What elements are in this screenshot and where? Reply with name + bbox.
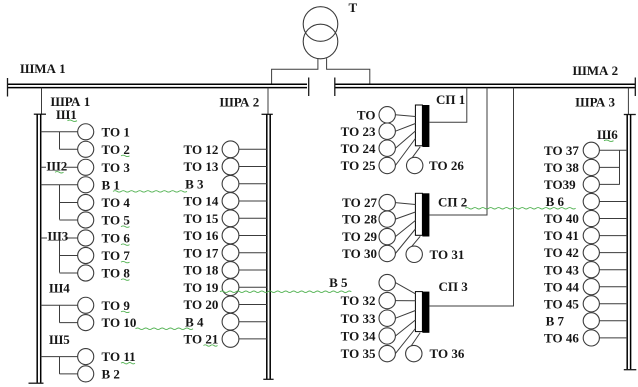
- wire TO 38 to branch Sh6: [599, 166, 619, 168]
- bus ShRA 3 bottom tick: [624, 369, 637, 371]
- svg-text:ТО 4: ТО 4: [102, 195, 131, 210]
- svg-text:ТО 38: ТО 38: [544, 160, 579, 175]
- feeder circle B 2: [78, 366, 94, 382]
- svg-text:Ш5: Ш5: [49, 332, 70, 347]
- bus ShMA 1 left end tick: [7, 78, 9, 97]
- wire bus ShRA1 to TO 6 (passes under Sh3 label): [41, 237, 78, 239]
- svg-text:ТО 36: ТО 36: [430, 346, 465, 361]
- net connector TO19 to B5 (green wavy): [220, 291, 351, 292]
- feeder circle TO (22): [379, 107, 395, 123]
- wire TO 35 to SP3 busbar: [395, 329, 415, 354]
- wire SP2 feed from bus ShMA2: [429, 88, 487, 215]
- feeder circle TO39: [583, 176, 599, 192]
- bus ShRA 1 top tick: [34, 113, 46, 115]
- wire branch to TO 10: [60, 322, 78, 324]
- spellcheck squiggle under Sh1: [68, 120, 78, 121]
- panel SP 1 busbar (black section): [422, 105, 429, 147]
- wire TO 17 to bus ShRA2: [239, 252, 267, 254]
- wire TO 20 to bus ShRA2: [239, 304, 267, 306]
- feeder circle TO 2: [78, 141, 94, 157]
- svg-text:ТО 13: ТО 13: [184, 159, 219, 174]
- bus ShRA 3 (double vertical): [627, 115, 630, 370]
- feeder circle TO 29: [379, 228, 395, 244]
- wire TO 29 to SP2 busbar: [395, 221, 415, 237]
- svg-text:ТО 34: ТО 34: [341, 329, 376, 344]
- svg-text:ТО 43: ТО 43: [544, 262, 579, 277]
- wire branch Sh3 vertical: [59, 238, 61, 273]
- wire branch Sh4 vertical: [59, 305, 61, 322]
- feeder circle TO 46: [583, 330, 599, 346]
- net connector TO10 to B4 (green wavy): [136, 328, 194, 329]
- svg-text:ТО 37: ТО 37: [544, 143, 579, 158]
- wire TO 15 to bus ShRA2: [239, 217, 267, 219]
- svg-text:Ш3: Ш3: [48, 228, 69, 243]
- feeder circle B 6: [583, 193, 599, 209]
- svg-text:В 4: В 4: [185, 314, 204, 329]
- panel SP 1 busbar (white section): [415, 105, 422, 146]
- wire SP3 feed from bus ShMA2: [429, 88, 513, 306]
- wire branch B1 vertical: [59, 185, 61, 220]
- feeder circle TO 27: [379, 194, 395, 210]
- wire TO 31 to SP2 busbar bottom: [412, 236, 421, 246]
- svg-text:В 6: В 6: [546, 194, 565, 209]
- wire TO 18 to bus ShRA2: [239, 269, 267, 271]
- wire TO 23 to SP1 busbar: [395, 124, 415, 132]
- wire TO 24 to SP1 busbar: [395, 131, 415, 148]
- feeder circle TO 4: [78, 194, 94, 210]
- svg-text:ТО 6: ТО 6: [102, 231, 131, 246]
- wire TO 21 to bus ShRA2: [239, 338, 267, 340]
- spellcheck squiggle under TO 5: [121, 226, 130, 227]
- wire TO 30 to SP2 busbar: [395, 229, 415, 254]
- svg-text:СП 1: СП 1: [436, 92, 465, 107]
- wire TO 25 to SP1 busbar: [395, 139, 415, 166]
- transformer T (two overlapping circles): [303, 7, 338, 59]
- feeder circle TO 13: [222, 158, 239, 175]
- svg-text:ТО 15: ТО 15: [184, 211, 219, 226]
- feeder circle TO 3: [78, 159, 94, 175]
- svg-text:ТО 25: ТО 25: [341, 158, 376, 173]
- feeder circle TO 18: [222, 262, 239, 279]
- feeder circle TO 35: [379, 345, 395, 361]
- feeder circle TO 11: [78, 349, 94, 365]
- bus ShRA 1 (double vertical): [37, 114, 41, 383]
- svg-text:ТО 24: ТО 24: [341, 141, 376, 156]
- feeder circle B 4: [222, 313, 239, 330]
- svg-text:ТО 11: ТО 11: [102, 349, 136, 364]
- spellcheck squiggle under TO 11: [121, 363, 135, 364]
- wire TO 33 to SP3 busbar: [395, 311, 415, 319]
- feeder circle TO 7: [78, 247, 94, 263]
- svg-text:ТО 26: ТО 26: [429, 158, 464, 173]
- svg-text:ТО 8: ТО 8: [102, 266, 131, 281]
- svg-text:ТО 40: ТО 40: [544, 211, 579, 226]
- feeder circle TO 45: [583, 296, 599, 312]
- feeder circle TO 32: [379, 292, 395, 308]
- svg-text:ТО 28: ТО 28: [342, 212, 377, 227]
- wire TO 40 to bus ShRA3: [599, 218, 627, 220]
- feeder circle B 3: [222, 175, 239, 192]
- spellcheck squiggle under Sh6: [604, 140, 614, 141]
- spellcheck squiggle under TO 2: [121, 155, 130, 156]
- svg-text:В 3: В 3: [185, 176, 204, 191]
- svg-text:ТО 29: ТО 29: [342, 229, 377, 244]
- spellcheck squiggle under Sh2: [55, 172, 64, 173]
- svg-text:ТО 44: ТО 44: [544, 279, 579, 294]
- spellcheck squiggle under TO 8: [121, 279, 130, 280]
- wire TO 19 to bus ShRA2: [239, 286, 267, 288]
- wire TO 45 to bus ShRA3: [599, 303, 627, 305]
- feeder circle B 7: [583, 313, 599, 329]
- panel SP 2 busbar (white section): [415, 193, 422, 235]
- feeder circle TO 26: [407, 157, 423, 173]
- svg-text:В 7: В 7: [546, 313, 565, 328]
- svg-text:ШРА 2: ШРА 2: [220, 95, 260, 110]
- wire TO 36 to SP3 busbar bottom: [411, 333, 420, 346]
- svg-text:ТО 2: ТО 2: [102, 142, 130, 157]
- bus ShMA 2 right end tick: [634, 78, 636, 97]
- feeder circle TO 40: [583, 210, 599, 226]
- svg-text:ТО 20: ТО 20: [184, 297, 219, 312]
- svg-text:ТО 21: ТО 21: [184, 332, 219, 347]
- wire branch to TO 2: [60, 148, 78, 150]
- wire TO 34 to SP3 busbar: [395, 320, 415, 336]
- svg-text:ТО 27: ТО 27: [342, 195, 377, 210]
- feeder circle TO 5: [78, 212, 94, 228]
- wire bus ShRA1 to B 1: [41, 184, 78, 186]
- bus ShRA 2 bottom tick: [263, 378, 273, 380]
- svg-text:ТО 35: ТО 35: [341, 346, 376, 361]
- feeder circle TO 28: [379, 211, 395, 227]
- bus ShRA 2 (double vertical): [267, 114, 270, 379]
- svg-text:В 2: В 2: [102, 367, 120, 382]
- spellcheck squiggle under TO 21: [204, 345, 218, 346]
- svg-text:В 1: В 1: [102, 177, 120, 192]
- svg-text:ТО 33: ТО 33: [341, 311, 376, 326]
- svg-text:ТО39: ТО39: [544, 177, 576, 192]
- svg-text:ТО 45: ТО 45: [544, 296, 579, 311]
- wire B 4 to bus ShRA2: [239, 321, 267, 323]
- svg-text:Ш1: Ш1: [56, 107, 77, 122]
- panel SP 2 busbar (black section): [422, 193, 429, 236]
- bus ShMA 2 left end tick: [334, 78, 336, 97]
- svg-text:ТО 1: ТО 1: [102, 124, 130, 139]
- net connector SP2 to B6 (green wavy): [465, 208, 576, 209]
- feeder circle TO 34: [379, 328, 395, 344]
- wire branch to B 2: [60, 373, 78, 375]
- panel SP 3 busbar (white section): [415, 292, 422, 332]
- svg-text:ШРА 3: ШРА 3: [575, 95, 615, 110]
- svg-text:ТО 18: ТО 18: [184, 263, 219, 278]
- feeder circle TO 8: [78, 265, 94, 281]
- wire TO 12 to bus ShRA2: [239, 148, 267, 150]
- bus ShMA 1 (double line): [7, 84, 307, 87]
- svg-text:Ш2: Ш2: [47, 158, 68, 173]
- wire bus ShRA1 to TO 3 (passes under Sh2 label): [41, 166, 78, 168]
- feeder circle TO 25: [379, 157, 395, 173]
- wire TO 27 to SP2 busbar: [395, 203, 415, 205]
- wire transformer left lead to bus ShMA1: [272, 58, 318, 84]
- wire TO 16 to bus ShRA2: [239, 235, 267, 237]
- svg-text:Т: Т: [349, 0, 358, 15]
- wire TO39 to branch Sh6: [599, 183, 619, 185]
- bus ShRA 2 top tick: [262, 113, 273, 115]
- svg-text:ТО 3: ТО 3: [102, 160, 131, 175]
- svg-text:ШМА 2: ШМА 2: [573, 63, 619, 78]
- feeder circle TO 36: [406, 345, 422, 361]
- spellcheck squiggle under TO 9: [121, 311, 130, 312]
- wire branch Sh1 vertical: [59, 132, 61, 150]
- feeder circle TO 23: [379, 123, 395, 139]
- feeder circle TO 9: [78, 297, 94, 313]
- wire branch Sh6 vertical: [619, 150, 621, 184]
- bus ShMA 2 (double line): [335, 84, 635, 87]
- wire branch to TO 8: [60, 272, 78, 274]
- wire B 5 to SP3 busbar: [395, 283, 415, 294]
- wire branch to TO 4: [60, 202, 78, 204]
- wire branch to TO 5: [60, 219, 78, 221]
- wire ShMA2 to ShRA3: [627, 88, 629, 115]
- bus ShMA 1 right end tick: [308, 78, 310, 97]
- svg-text:ТО 19: ТО 19: [184, 280, 219, 295]
- feeder circle TO 44: [583, 279, 599, 295]
- wire TO 28 to SP2 busbar: [395, 212, 415, 219]
- panel SP 3 busbar (black section): [422, 292, 429, 333]
- wire branch Sh5 vertical: [59, 357, 61, 374]
- feeder circle TO 31: [406, 246, 422, 262]
- svg-text:ТО 9: ТО 9: [102, 298, 131, 313]
- svg-text:ТО 17: ТО 17: [184, 245, 219, 260]
- feeder circle TO 42: [583, 245, 599, 261]
- svg-text:ТО 32: ТО 32: [341, 293, 376, 308]
- svg-text:ТО 7: ТО 7: [102, 248, 131, 263]
- feeder circle B 1: [78, 177, 94, 193]
- wire ShMA1 to ShRA1: [41, 88, 43, 114]
- svg-text:ТО 42: ТО 42: [544, 245, 579, 260]
- wire B 7 to bus ShRA3: [599, 320, 627, 322]
- net connector B1 to B3 (green wavy): [113, 191, 187, 192]
- feeder circle TO 19: [222, 279, 239, 296]
- bus ShRA 3 top tick: [624, 114, 636, 116]
- wire branch to TO 7: [60, 255, 78, 257]
- svg-text:ТО: ТО: [357, 107, 376, 122]
- feeder circle TO 17: [222, 244, 239, 261]
- wire bus ShRA1 to TO 9: [41, 304, 78, 306]
- wire B 6 to bus ShRA3: [599, 201, 627, 203]
- feeder circle TO 16: [222, 227, 239, 244]
- wire transformer right lead to bus ShMA2: [327, 58, 370, 84]
- wire ShMA1 to ShRA2: [267, 88, 269, 114]
- spellcheck squiggle under TO 6: [121, 244, 130, 245]
- feeder circle TO 43: [583, 262, 599, 278]
- feeder circle B 5: [379, 274, 395, 290]
- feeder circle TO 12: [222, 141, 239, 158]
- svg-text:ТО 46: ТО 46: [544, 331, 579, 346]
- wire TO 26 to SP1 busbar bottom: [412, 147, 420, 158]
- svg-text:СП 2: СП 2: [438, 195, 467, 210]
- wire TO (22) to SP1 busbar: [395, 115, 415, 117]
- svg-text:ШМА 1: ШМА 1: [20, 61, 66, 76]
- wire TO 37 to bus ShRA3: [599, 149, 627, 151]
- wire TO 44 to bus ShRA3: [599, 286, 627, 288]
- feeder circle TO 1: [78, 124, 94, 140]
- feeder circle TO 37: [583, 142, 599, 158]
- wire bus ShRA1 to TO 1: [41, 131, 78, 133]
- feeder circle TO 33: [379, 310, 395, 326]
- spellcheck squiggle under TO 7: [121, 261, 130, 262]
- wire TO 14 to bus ShRA2: [239, 200, 267, 202]
- wire TO 32 to SP3 busbar: [395, 300, 415, 302]
- svg-text:ТО 30: ТО 30: [342, 246, 377, 261]
- feeder circle TO 30: [379, 245, 395, 261]
- svg-text:В 5: В 5: [329, 275, 348, 290]
- svg-text:ТО 5: ТО 5: [102, 213, 131, 228]
- feeder circle TO 6: [78, 230, 94, 246]
- svg-text:ТО 41: ТО 41: [544, 228, 579, 243]
- svg-text:ТО 14: ТО 14: [184, 194, 219, 209]
- feeder circle TO 10: [78, 315, 94, 331]
- feeder circle TO 24: [379, 140, 395, 156]
- svg-text:Ш4: Ш4: [49, 281, 70, 296]
- wire TO 46 to bus ShRA3: [599, 337, 627, 339]
- feeder circle TO 41: [583, 228, 599, 244]
- wire TO 43 to bus ShRA3: [599, 269, 627, 271]
- wire TO 13 to bus ShRA2: [239, 166, 267, 168]
- svg-text:ТО 31: ТО 31: [430, 247, 465, 262]
- wire SP1 feed from bus ShMA2: [429, 88, 466, 123]
- feeder circle TO 15: [222, 210, 239, 227]
- wire TO 41 to bus ShRA3: [599, 235, 627, 237]
- wire TO 42 to bus ShRA3: [599, 252, 627, 254]
- svg-text:СП 3: СП 3: [439, 279, 469, 294]
- bus ShRA 1 bottom tick: [29, 382, 44, 384]
- wire B 3 to bus ShRA2: [239, 183, 267, 185]
- svg-text:ТО 23: ТО 23: [341, 124, 376, 139]
- svg-text:ТО 10: ТО 10: [102, 315, 137, 330]
- feeder circle TO 20: [222, 296, 239, 313]
- feeder circle TO 21: [222, 331, 239, 348]
- wire bus ShRA1 to TO 11: [41, 356, 78, 358]
- svg-text:ТО 12: ТО 12: [184, 142, 219, 157]
- svg-text:ТО 16: ТО 16: [184, 228, 219, 243]
- feeder circle TO 38: [583, 159, 599, 175]
- feeder circle TO 14: [222, 193, 239, 210]
